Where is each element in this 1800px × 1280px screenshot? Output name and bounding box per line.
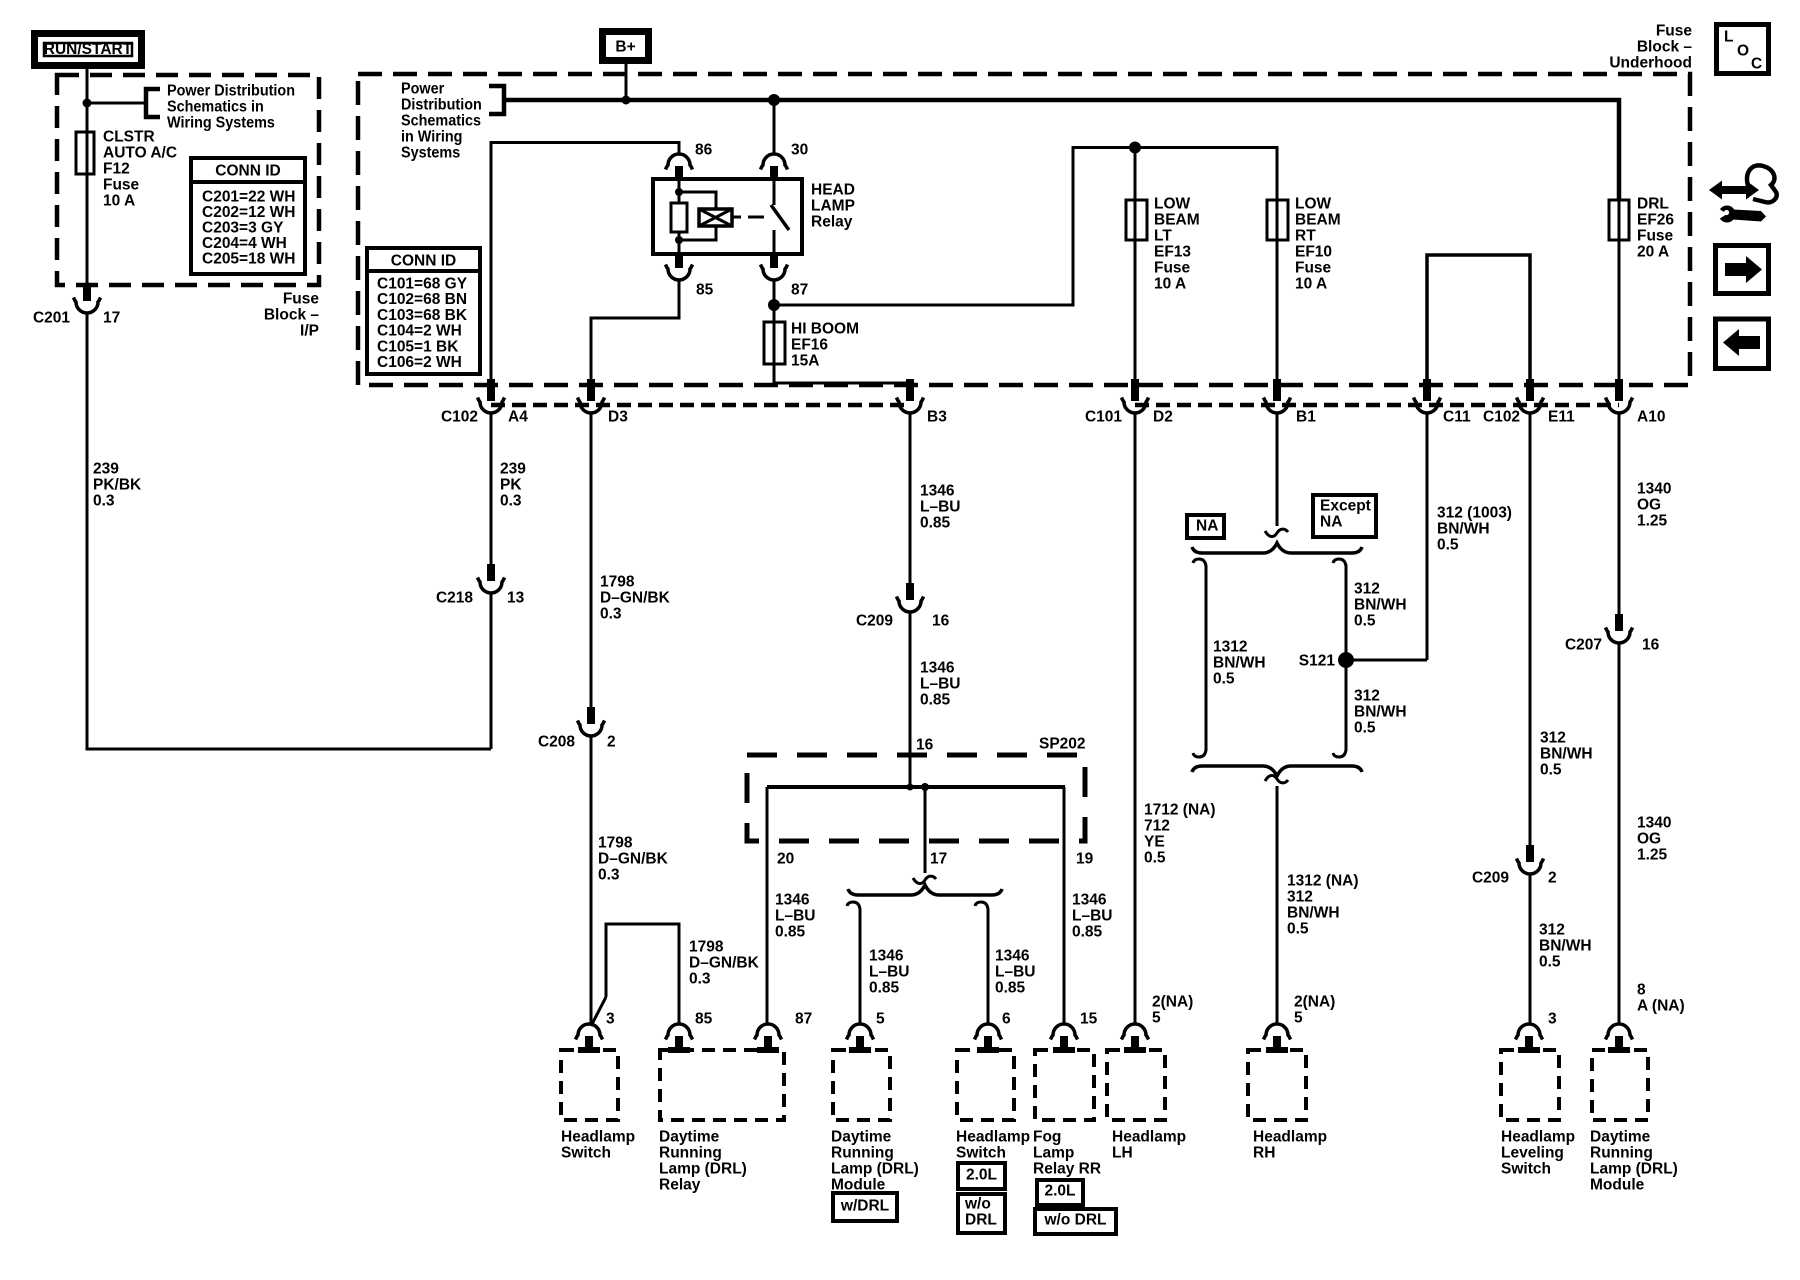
svg-text:Distribution: Distribution bbox=[401, 96, 482, 114]
fuse LOW BEAM LT EF13 10A bbox=[1126, 200, 1147, 240]
fuse HI BOOM EF16 15A bbox=[764, 322, 785, 364]
icon forward arrow box bbox=[1716, 246, 1769, 294]
power rail label RUN/START bbox=[35, 34, 142, 66]
svg-text:OG: OG bbox=[1637, 497, 1661, 514]
main B+ bus wire to DRL fuse bbox=[504, 100, 1619, 200]
svg-text:C105=1 BK: C105=1 BK bbox=[377, 338, 459, 355]
branch hook Except NA top bbox=[1333, 559, 1346, 570]
splice pack SP202 dashed enclosure bbox=[747, 755, 1085, 841]
svg-text:312 (1003): 312 (1003) bbox=[1437, 505, 1512, 522]
wire relay pin 85 to C102 D3 bbox=[591, 280, 679, 379]
relay HEAD LAMP label bbox=[811, 182, 855, 231]
wire 239 PK/BK from C201 down and right to C218 leg bbox=[87, 313, 491, 749]
wire splice to pin 20 drop bbox=[766, 787, 769, 1024]
branch hook pin 5 bbox=[847, 902, 860, 913]
wire D3 to C208 (1798 D-GN/BK) bbox=[590, 414, 593, 707]
svg-text:BEAM: BEAM bbox=[1154, 212, 1200, 229]
svg-text:1346: 1346 bbox=[995, 948, 1030, 965]
svg-text:CONN ID: CONN ID bbox=[391, 253, 456, 270]
svg-text:A (NA): A (NA) bbox=[1637, 998, 1685, 1015]
branch hook NA bottom bbox=[1193, 746, 1206, 757]
svg-text:C102=68 BN: C102=68 BN bbox=[377, 291, 467, 308]
qualifier box 2.0L headlamp switch bbox=[958, 1163, 1005, 1189]
wire C218 down to junction with C201 wire bbox=[490, 593, 493, 749]
connector breakout pin C11 bbox=[1414, 379, 1441, 413]
svg-text:Module: Module bbox=[1590, 1177, 1645, 1194]
fuse LOW BEAM RT EF10 10A bbox=[1267, 200, 1288, 240]
svg-text:C209: C209 bbox=[856, 613, 893, 630]
junction B3 entry on splice bus bbox=[907, 784, 914, 791]
wire label 1346 L-BU 0.85 lower bbox=[920, 660, 960, 709]
svg-text:C218: C218 bbox=[436, 590, 473, 607]
svg-text:LAMP: LAMP bbox=[811, 198, 855, 215]
branch hook Except NA bottom bbox=[1333, 746, 1346, 757]
svg-text:1798: 1798 bbox=[689, 939, 724, 956]
svg-text:0.3: 0.3 bbox=[93, 493, 115, 510]
wire branch to pin 5 bbox=[859, 913, 862, 1024]
svg-text:1346: 1346 bbox=[775, 892, 810, 909]
svg-text:0.85: 0.85 bbox=[775, 924, 806, 941]
svg-text:C201=22 WH: C201=22 WH bbox=[202, 189, 295, 206]
pin label 2(NA) 5 headlamp RH bbox=[1294, 994, 1335, 1027]
svg-text:BN/WH: BN/WH bbox=[1539, 938, 1592, 955]
wire label 312 BN/WH 0.5 lower bbox=[1354, 688, 1407, 737]
svg-text:Fog: Fog bbox=[1033, 1129, 1061, 1146]
svg-text:LOW: LOW bbox=[1154, 196, 1191, 213]
svg-text:C207: C207 bbox=[1565, 637, 1602, 654]
svg-text:Running: Running bbox=[659, 1145, 722, 1162]
connector C208 pin 2 bbox=[578, 707, 605, 736]
svg-text:L–BU: L–BU bbox=[775, 908, 815, 925]
svg-text:85: 85 bbox=[696, 282, 714, 299]
svg-text:0.85: 0.85 bbox=[1072, 924, 1103, 941]
relay HEAD LAMP outline bbox=[653, 179, 802, 254]
component Headlamp Switch 2.0L bbox=[956, 1024, 1030, 1162]
fuse block I/P dashed enclosure bbox=[57, 75, 319, 285]
svg-text:L–BU: L–BU bbox=[1072, 908, 1112, 925]
svg-text:1340: 1340 bbox=[1637, 481, 1671, 498]
svg-text:239: 239 bbox=[500, 461, 526, 478]
svg-text:Lamp (DRL): Lamp (DRL) bbox=[659, 1161, 747, 1178]
svg-text:Switch: Switch bbox=[1501, 1161, 1551, 1178]
svg-text:Relay RR: Relay RR bbox=[1033, 1161, 1101, 1178]
wire B3 to C209 (1346 L-BU) bbox=[909, 414, 912, 583]
svg-text:6: 6 bbox=[1002, 1011, 1011, 1028]
svg-text:PK: PK bbox=[500, 477, 522, 494]
svg-text:1.25: 1.25 bbox=[1637, 847, 1668, 864]
svg-text:Headlamp: Headlamp bbox=[1253, 1129, 1327, 1146]
fuse LOW BEAM LT label bbox=[1154, 196, 1200, 293]
svg-text:312: 312 bbox=[1540, 730, 1566, 747]
svg-text:3: 3 bbox=[606, 1011, 615, 1028]
relay pin 85 terminal bbox=[666, 254, 693, 280]
qualifier box w/o DRL fog lamp relay bbox=[1035, 1209, 1116, 1234]
svg-text:L–BU: L–BU bbox=[920, 676, 960, 693]
svg-text:L: L bbox=[1724, 29, 1733, 46]
svg-text:312: 312 bbox=[1539, 922, 1565, 939]
connector C218 pin 13 bbox=[478, 564, 505, 593]
svg-text:D–GN/BK: D–GN/BK bbox=[598, 851, 669, 868]
fuse block underhood name label bbox=[1609, 23, 1692, 72]
svg-text:2.0L: 2.0L bbox=[1044, 1183, 1075, 1200]
wire label 1346 L-BU 0.85 pin20 bbox=[775, 892, 815, 941]
wire Except NA branch upper (312 BN/WH) bbox=[1345, 570, 1348, 660]
svg-text:BN/WH: BN/WH bbox=[1354, 597, 1407, 614]
fuse DRL label bbox=[1637, 196, 1674, 261]
wire label 1312 (NA) 312 BN/WH 0.5 bbox=[1287, 873, 1359, 938]
wire to headlamp RH bbox=[1276, 786, 1279, 1024]
svg-text:C101: C101 bbox=[1085, 409, 1122, 426]
svg-text:0.5: 0.5 bbox=[1540, 762, 1562, 779]
svg-text:Lamp (DRL): Lamp (DRL) bbox=[831, 1161, 919, 1178]
svg-text:A4: A4 bbox=[508, 409, 528, 426]
svg-text:B1: B1 bbox=[1296, 409, 1316, 426]
wire splice pin 17 drop bbox=[924, 787, 927, 873]
junction low beam LT tap bbox=[1129, 142, 1141, 154]
distribution brace B1 bottom bbox=[1192, 766, 1362, 776]
svg-text:Leveling: Leveling bbox=[1501, 1145, 1564, 1162]
wire C207 to DRL module bbox=[1618, 643, 1621, 1024]
svg-text:L–BU: L–BU bbox=[920, 499, 960, 516]
svg-text:C104=2 WH: C104=2 WH bbox=[377, 323, 462, 340]
svg-text:Headlamp: Headlamp bbox=[1501, 1129, 1575, 1146]
svg-text:312: 312 bbox=[1354, 688, 1380, 705]
svg-text:3: 3 bbox=[1548, 1011, 1557, 1028]
svg-text:Fuse: Fuse bbox=[1295, 260, 1332, 277]
svg-text:BN/WH: BN/WH bbox=[1213, 655, 1266, 672]
svg-text:D–GN/BK: D–GN/BK bbox=[689, 955, 760, 972]
svg-text:17: 17 bbox=[103, 310, 120, 327]
wire DRL fuse drop bbox=[1618, 200, 1621, 401]
connector C209 pin 2 bbox=[1517, 845, 1544, 874]
svg-text:CONN ID: CONN ID bbox=[215, 163, 280, 180]
svg-text:85: 85 bbox=[695, 1011, 713, 1028]
svg-text:0.5: 0.5 bbox=[1213, 671, 1235, 688]
svg-text:EF13: EF13 bbox=[1154, 244, 1191, 261]
svg-text:Running: Running bbox=[831, 1145, 894, 1162]
svg-text:HEAD: HEAD bbox=[811, 182, 855, 199]
wire junction to schematic reference bracket bbox=[87, 102, 146, 105]
svg-text:87: 87 bbox=[795, 1011, 812, 1028]
wire E11 to C209 (312 BN/WH) bbox=[1529, 414, 1532, 845]
splice SP202 bus bbox=[767, 785, 1065, 789]
svg-text:Schematics: Schematics bbox=[401, 112, 481, 130]
svg-text:30: 30 bbox=[791, 142, 808, 159]
icon service tool (arrows and wrench) bbox=[1709, 165, 1777, 222]
reference note Power Distribution Schematics in Wiring Systems (underhood) bbox=[401, 80, 482, 162]
qualifier box 2.0L fog lamp relay bbox=[1037, 1180, 1083, 1205]
junction pin 87 to low-beam feed bbox=[768, 299, 780, 311]
svg-text:Switch: Switch bbox=[561, 1145, 611, 1162]
relay coil X-box element bbox=[699, 209, 732, 226]
svg-text:C102: C102 bbox=[441, 409, 478, 426]
wire label 1346 L-BU 0.85 pin5 bbox=[869, 948, 909, 997]
svg-text:in Wiring: in Wiring bbox=[401, 128, 462, 146]
wire label 1340 OG 1.25 lower bbox=[1637, 815, 1671, 864]
svg-text:20: 20 bbox=[777, 851, 794, 868]
svg-text:RT: RT bbox=[1295, 228, 1316, 245]
component Headlamp Switch bbox=[561, 1024, 635, 1162]
svg-text:0.3: 0.3 bbox=[500, 493, 522, 510]
svg-text:Relay: Relay bbox=[811, 214, 853, 231]
svg-text:C202=12 WH: C202=12 WH bbox=[202, 204, 295, 221]
svg-text:0.3: 0.3 bbox=[689, 971, 711, 988]
svg-text:0.5: 0.5 bbox=[1539, 954, 1561, 971]
svg-text:1312: 1312 bbox=[1213, 639, 1247, 656]
relay contact output wire to pin 87 bbox=[773, 230, 776, 254]
svg-text:1798: 1798 bbox=[598, 835, 633, 852]
svg-text:0.85: 0.85 bbox=[920, 515, 951, 532]
relay contact armature bbox=[771, 205, 789, 230]
fuse block underhood dashed enclosure bbox=[358, 74, 1690, 385]
reference bracket underhood bbox=[489, 86, 504, 114]
relay pin 30 terminal bbox=[761, 154, 788, 179]
wire relay pin 87 through HI BOOM fuse to B3 bbox=[774, 280, 910, 401]
splice S121 bbox=[1338, 652, 1354, 668]
svg-text:2(NA): 2(NA) bbox=[1152, 994, 1193, 1011]
svg-text:C204=4 WH: C204=4 WH bbox=[202, 235, 287, 252]
svg-text:D3: D3 bbox=[608, 409, 628, 426]
svg-text:A10: A10 bbox=[1637, 409, 1665, 426]
svg-text:w/o DRL: w/o DRL bbox=[1044, 1212, 1107, 1229]
junction B+ on bus bbox=[622, 96, 631, 105]
svg-text:Lamp (DRL): Lamp (DRL) bbox=[1590, 1161, 1678, 1178]
svg-text:2: 2 bbox=[607, 734, 616, 751]
svg-text:Power Distribution: Power Distribution bbox=[167, 82, 295, 100]
connector breakout pin A10 bbox=[1606, 379, 1633, 413]
option label Except NA bbox=[1313, 495, 1376, 537]
relay coil junction lower bbox=[675, 236, 683, 244]
fuse HI BOOM label bbox=[791, 321, 859, 370]
svg-text:DRL: DRL bbox=[965, 1212, 997, 1229]
svg-text:1312 (NA): 1312 (NA) bbox=[1287, 873, 1359, 890]
svg-text:2: 2 bbox=[1548, 870, 1557, 887]
svg-text:Daytime: Daytime bbox=[1590, 1129, 1651, 1146]
relay actuation dashed link bbox=[732, 216, 764, 219]
svg-text:LT: LT bbox=[1154, 228, 1172, 245]
wire label 1346 L-BU 0.85 upper bbox=[920, 483, 960, 532]
svg-text:D2: D2 bbox=[1153, 409, 1173, 426]
svg-text:10 A: 10 A bbox=[1154, 276, 1186, 293]
component Fog Lamp Relay RR bbox=[1033, 1024, 1101, 1178]
svg-text:C: C bbox=[1751, 56, 1762, 73]
fuse F12 value label bbox=[103, 129, 177, 210]
wire B+ drop to main bus bbox=[625, 64, 628, 100]
svg-text:Daytime: Daytime bbox=[831, 1129, 892, 1146]
svg-text:2(NA): 2(NA) bbox=[1294, 994, 1335, 1011]
svg-text:0.5: 0.5 bbox=[1354, 720, 1376, 737]
svg-text:Headlamp: Headlamp bbox=[561, 1129, 635, 1146]
wire A4 to C218 (239 PK) bbox=[490, 414, 493, 564]
svg-text:C201: C201 bbox=[33, 310, 70, 327]
wire branch to DRL relay pin 85 bbox=[591, 924, 679, 1026]
junction splice tap pin 17 bbox=[921, 783, 929, 791]
svg-text:13: 13 bbox=[507, 590, 525, 607]
svg-text:0.5: 0.5 bbox=[1354, 613, 1376, 630]
svg-text:Lamp: Lamp bbox=[1033, 1145, 1074, 1162]
svg-text:I/P: I/P bbox=[300, 323, 319, 340]
junction bus to relay pin 30 bbox=[768, 94, 780, 106]
wire bus drop to relay pin 30 bbox=[773, 100, 776, 154]
svg-text:10 A: 10 A bbox=[1295, 276, 1327, 293]
svg-text:C106=2 WH: C106=2 WH bbox=[377, 354, 462, 371]
svg-text:O: O bbox=[1737, 43, 1749, 60]
svg-text:NA: NA bbox=[1320, 514, 1342, 531]
svg-text:0.5: 0.5 bbox=[1437, 537, 1459, 554]
wire label 1798 D-GN/BK 0.3 middle bbox=[598, 835, 669, 884]
svg-text:LOW: LOW bbox=[1295, 196, 1332, 213]
svg-text:Underhood: Underhood bbox=[1609, 55, 1692, 72]
wire LT fuse drop bbox=[1134, 148, 1137, 402]
wire label 312 BN/WH 0.5 E11 upper bbox=[1540, 730, 1593, 779]
svg-text:Schematics in: Schematics in bbox=[167, 98, 264, 116]
svg-text:C209: C209 bbox=[1472, 870, 1509, 887]
junction on RUN/START feed bbox=[83, 99, 92, 108]
component Headlamp RH bbox=[1248, 1024, 1327, 1162]
wire RUN/START to fuse F12 bbox=[86, 69, 89, 132]
svg-text:w/DRL: w/DRL bbox=[840, 1198, 889, 1215]
svg-text:Power: Power bbox=[401, 80, 444, 98]
svg-text:Headlamp: Headlamp bbox=[1112, 1129, 1186, 1146]
svg-text:w/o: w/o bbox=[964, 1196, 991, 1213]
relay coil branch wire bbox=[678, 179, 681, 254]
svg-text:S121: S121 bbox=[1299, 653, 1336, 670]
svg-text:312: 312 bbox=[1354, 581, 1380, 598]
connector face line C101-C102 right bbox=[1135, 403, 1619, 408]
svg-text:Except: Except bbox=[1320, 498, 1371, 515]
svg-text:Running: Running bbox=[1590, 1145, 1653, 1162]
svg-text:1.25: 1.25 bbox=[1637, 513, 1668, 530]
svg-text:0.5: 0.5 bbox=[1287, 921, 1309, 938]
connector breakout pin E11 bbox=[1517, 379, 1544, 413]
svg-text:Fuse: Fuse bbox=[283, 291, 320, 308]
wire C209 to splice SP202 bbox=[909, 612, 912, 787]
svg-text:B+: B+ bbox=[615, 39, 635, 56]
relay contact fixed wire from pin 30 bbox=[773, 179, 776, 205]
svg-text:0.3: 0.3 bbox=[598, 867, 620, 884]
svg-text:Fuse: Fuse bbox=[1656, 23, 1693, 40]
svg-text:C11: C11 bbox=[1443, 409, 1471, 426]
svg-text:16: 16 bbox=[1642, 637, 1660, 654]
wire label 1312 BN/WH 0.5 bbox=[1213, 639, 1266, 688]
connector C209 pin 16 bbox=[897, 583, 924, 612]
svg-text:10 A: 10 A bbox=[103, 193, 135, 210]
wire RT fuse drop bbox=[1276, 200, 1279, 401]
wire jumper C11 to E11 inside fuse block bbox=[1427, 255, 1530, 401]
power rail label B+ bbox=[603, 32, 649, 61]
wire B1 drop bbox=[1276, 414, 1279, 526]
svg-text:87: 87 bbox=[791, 282, 808, 299]
connector C207 pin 16 bbox=[1606, 614, 1633, 643]
relay coil junction upper bbox=[675, 188, 683, 196]
svg-text:Daytime: Daytime bbox=[659, 1129, 720, 1146]
wire splice to pin 19 drop bbox=[1063, 787, 1066, 1024]
svg-text:19: 19 bbox=[1076, 851, 1094, 868]
svg-text:C205=18 WH: C205=18 WH bbox=[202, 251, 295, 268]
svg-text:NA: NA bbox=[1196, 518, 1218, 535]
svg-text:B3: B3 bbox=[927, 409, 947, 426]
connector breakout pin A4 bbox=[478, 379, 505, 413]
svg-text:BN/WH: BN/WH bbox=[1540, 746, 1593, 763]
branch hook NA top bbox=[1193, 559, 1206, 570]
component Daytime Running Lamp DRL Module bbox=[831, 1024, 919, 1194]
svg-text:1340: 1340 bbox=[1637, 815, 1671, 832]
svg-text:C103=68 BK: C103=68 BK bbox=[377, 307, 468, 324]
svg-text:EF16: EF16 bbox=[791, 337, 828, 354]
table CONN ID (underhood) bbox=[367, 248, 480, 374]
fuse CLSTR AUTO A/C F12 10A bbox=[76, 132, 94, 174]
wire D2 to headlamp LH (1712/712 YE) bbox=[1134, 414, 1137, 1024]
pin label 8 A(NA) DRL module bbox=[1637, 982, 1685, 1015]
svg-text:Block –: Block – bbox=[264, 307, 320, 324]
svg-text:LH: LH bbox=[1112, 1145, 1133, 1162]
svg-text:Block –: Block – bbox=[1637, 39, 1693, 56]
wire label 312 BN/WH 0.5 upper bbox=[1354, 581, 1407, 630]
svg-text:5: 5 bbox=[1152, 1010, 1161, 1027]
distribution brace B1 top bbox=[1192, 543, 1362, 553]
svg-text:C101=68 GY: C101=68 GY bbox=[377, 276, 468, 293]
wire label 1712 (NA) 712 YE 0.5 bbox=[1144, 802, 1216, 867]
svg-text:1346: 1346 bbox=[1072, 892, 1107, 909]
wire label 312 (1003) BN/WH 0.5 bbox=[1437, 505, 1512, 554]
pin label 2(NA) 5 headlamp LH bbox=[1152, 994, 1193, 1027]
branch hook pin 6 bbox=[975, 902, 988, 913]
svg-text:712: 712 bbox=[1144, 818, 1170, 835]
svg-text:BN/WH: BN/WH bbox=[1354, 704, 1407, 721]
fuse DRL EF26 20A bbox=[1609, 200, 1629, 240]
svg-text:0.3: 0.3 bbox=[600, 606, 622, 623]
connector face line C102 left bbox=[491, 403, 910, 408]
wire end squiggle pin 17 bbox=[913, 876, 936, 883]
wire NA branch (1312 BN/WH) bbox=[1205, 570, 1208, 746]
icon back arrow box bbox=[1716, 319, 1769, 369]
connector C201 pin 17 bbox=[74, 284, 101, 313]
relay pin 87 terminal bbox=[761, 254, 788, 280]
svg-text:1346: 1346 bbox=[920, 660, 955, 677]
fuse LOW BEAM RT label bbox=[1295, 196, 1341, 293]
svg-text:DRL: DRL bbox=[1637, 196, 1669, 213]
svg-text:RUN/START: RUN/START bbox=[44, 41, 133, 58]
svg-text:16: 16 bbox=[916, 737, 934, 754]
relay coil resistor element bbox=[671, 203, 687, 232]
reference bracket I/P bbox=[146, 89, 160, 117]
svg-text:OG: OG bbox=[1637, 831, 1661, 848]
component Headlamp LH bbox=[1107, 1024, 1186, 1162]
connector breakout pin B3 bbox=[897, 379, 924, 413]
svg-text:HI BOOM: HI BOOM bbox=[791, 321, 859, 338]
wire label 1798 D-GN/BK 0.3 branch bbox=[689, 939, 760, 988]
wire C208 to headlamp switch pin 3 bbox=[590, 736, 593, 1024]
connector breakout pin D2 bbox=[1122, 379, 1149, 413]
svg-text:EF26: EF26 bbox=[1637, 212, 1674, 229]
svg-text:CLSTR: CLSTR bbox=[103, 129, 155, 146]
svg-text:Fuse: Fuse bbox=[103, 177, 140, 194]
svg-text:C102: C102 bbox=[1483, 409, 1520, 426]
svg-text:0.85: 0.85 bbox=[995, 980, 1026, 997]
svg-text:PK/BK: PK/BK bbox=[93, 477, 142, 494]
svg-text:BN/WH: BN/WH bbox=[1287, 905, 1340, 922]
svg-text:0.85: 0.85 bbox=[869, 980, 900, 997]
wire relay pin 86 feed from C102 A4 bbox=[491, 143, 679, 380]
qualifier box w/DRL bbox=[833, 1193, 897, 1221]
wire label 1340 OG 1.25 upper bbox=[1637, 481, 1671, 530]
wire A10 to C207 (1340 OG) bbox=[1618, 414, 1621, 614]
wire label 239 PK 0.3 bbox=[500, 461, 526, 510]
svg-text:0.85: 0.85 bbox=[920, 692, 951, 709]
svg-text:Systems: Systems bbox=[401, 144, 460, 162]
wire branch to pin 6 bbox=[987, 913, 990, 1024]
svg-text:Relay: Relay bbox=[659, 1177, 701, 1194]
